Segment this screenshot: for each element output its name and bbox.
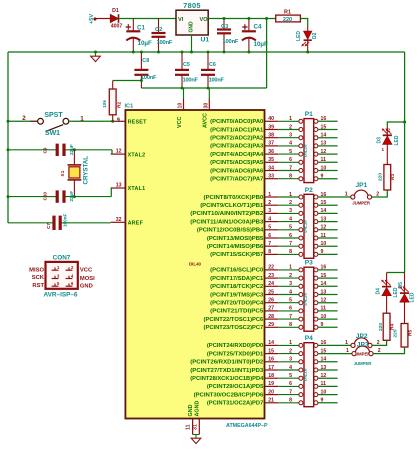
svg-text:1: 1 [289, 340, 292, 346]
svg-text:D1: D1 [112, 8, 119, 14]
svg-text:C1: C1 [137, 25, 145, 32]
svg-text:(PCINT15/SCK)PB7: (PCINT15/SCK)PB7 [210, 252, 263, 258]
svg-text:5: 5 [289, 298, 292, 304]
svg-text:(PCINT7/ADC7)PA7: (PCINT7/ADC7)PA7 [210, 177, 263, 183]
svg-text:CON7: CON7 [53, 255, 71, 262]
svg-text:8: 8 [289, 174, 292, 180]
svg-text:4: 4 [289, 141, 292, 147]
svg-text:XTAL1: XTAL1 [128, 186, 146, 192]
svg-text:R2: R2 [116, 102, 122, 108]
svg-text:8: 8 [289, 322, 292, 328]
svg-text:31: 31 [192, 424, 198, 430]
svg-text:(PCINT25/TXD0)PD1: (PCINT25/TXD0)PD1 [207, 351, 263, 357]
svg-text:8: 8 [268, 249, 271, 255]
svg-text:220: 220 [392, 329, 398, 337]
svg-text:D5: D5 [398, 282, 404, 289]
svg-text:5: 5 [289, 225, 292, 231]
svg-text:R4: R4 [390, 324, 396, 330]
svg-text:8: 8 [289, 398, 292, 404]
svg-text:100nF: 100nF [141, 75, 157, 81]
svg-text:RESET: RESET [128, 120, 147, 126]
svg-text:X1: X1 [60, 170, 66, 176]
svg-text:(PCINT31/OC2A)PD7: (PCINT31/OC2A)PD7 [207, 401, 263, 407]
svg-text:22pF: 22pF [69, 191, 74, 202]
svg-text:ATMEGA644P–P: ATMEGA644P–P [226, 423, 268, 429]
svg-text:100nF: 100nF [63, 214, 68, 227]
svg-text:4: 4 [289, 216, 292, 222]
svg-text:100nF: 100nF [157, 40, 173, 46]
svg-text:RST: RST [32, 283, 44, 289]
svg-text:29: 29 [268, 322, 274, 328]
svg-text:1: 1 [382, 147, 385, 152]
svg-text:28: 28 [268, 314, 274, 320]
svg-text:(PCINT20/TDO)PC4: (PCINT20/TDO)PC4 [210, 301, 263, 307]
svg-text:4: 4 [289, 289, 292, 295]
svg-text:JUMPER: JUMPER [352, 201, 371, 206]
svg-text:15: 15 [268, 348, 274, 354]
svg-text:12: 12 [116, 149, 122, 155]
svg-text:2: 2 [388, 128, 391, 133]
svg-text:7: 7 [289, 165, 292, 171]
svg-text:23: 23 [268, 273, 274, 279]
svg-text:SPST: SPST [44, 112, 63, 119]
svg-text:(PCINT21/TDI)PC5: (PCINT21/TDI)PC5 [210, 309, 263, 315]
svg-text:25: 25 [268, 289, 274, 295]
svg-text:(PCINT30/OC2B/ICP)PD6: (PCINT30/OC2B/ICP)PD6 [194, 392, 264, 398]
svg-text:SCK: SCK [32, 275, 45, 281]
svg-text:P3: P3 [305, 260, 313, 267]
svg-text:(PCINT28/XCK1/OC1B)PD4: (PCINT28/XCK1/OC1B)PD4 [190, 376, 263, 382]
svg-text:(PCINT18/TCK)PC2: (PCINT18/TCK)PC2 [210, 284, 263, 290]
svg-text:7805: 7805 [183, 1, 201, 10]
svg-text:C7: C7 [46, 223, 51, 229]
svg-text:6: 6 [289, 306, 292, 312]
svg-text:22: 22 [268, 265, 274, 271]
svg-text:AVR–ISP–6: AVR–ISP–6 [44, 292, 78, 299]
svg-text:11: 11 [186, 424, 192, 430]
svg-text:D2: D2 [312, 32, 318, 39]
svg-text:220: 220 [283, 17, 292, 23]
svg-text:VCC: VCC [177, 117, 183, 128]
svg-text:C10: C10 [43, 192, 48, 201]
svg-text:4007: 4007 [111, 24, 123, 30]
svg-text:9: 9 [117, 118, 120, 124]
svg-text:(PCINT14/MISO)PB6: (PCINT14/MISO)PB6 [207, 244, 263, 250]
svg-text:1: 1 [346, 348, 349, 354]
svg-text:SW1: SW1 [45, 130, 60, 137]
svg-text:10µF: 10µF [138, 40, 152, 47]
svg-text:GND: GND [188, 404, 194, 416]
svg-text:P1: P1 [305, 111, 313, 118]
svg-text:(PCINT5/ADC5)PA5: (PCINT5/ADC5)PA5 [210, 160, 263, 166]
svg-text:19: 19 [268, 381, 274, 387]
svg-text:VO: VO [200, 17, 209, 23]
svg-text:(PCINT12/OC0B/SS)PB4: (PCINT12/OC0B/SS)PB4 [197, 228, 263, 234]
svg-text:(PCINT4/ADC4)PA4: (PCINT4/ADC4)PA4 [210, 152, 263, 158]
svg-text:JP3: JP3 [357, 341, 369, 348]
svg-text:(PCINT23/TOSC2)PC7: (PCINT23/TOSC2)PC7 [204, 325, 264, 331]
svg-text:100nF: 100nF [183, 78, 199, 84]
svg-text:30: 30 [203, 103, 209, 109]
svg-text:1: 1 [345, 340, 348, 346]
svg-text:1: 1 [289, 265, 292, 271]
svg-text:C3: C3 [221, 24, 229, 30]
svg-text:IC1: IC1 [125, 104, 134, 110]
svg-text:(PCINT0/ADC0)PA0: (PCINT0/ADC0)PA0 [210, 119, 263, 125]
svg-text:DIL40: DIL40 [189, 261, 202, 266]
svg-text:3: 3 [289, 208, 292, 214]
svg-text:6: 6 [289, 233, 292, 239]
svg-text:GND: GND [189, 21, 195, 33]
svg-text:39: 39 [268, 124, 274, 130]
svg-text:(PCINT17/SDA)PC1: (PCINT17/SDA)PC1 [210, 276, 263, 282]
svg-text:AVCC: AVCC [203, 113, 209, 128]
svg-text:LED: LED [394, 135, 400, 145]
svg-text:27: 27 [268, 306, 274, 312]
svg-text:(PCINT19/TMS)PC3: (PCINT19/TMS)PC3 [210, 292, 263, 298]
svg-text:220: 220 [378, 323, 384, 331]
svg-text:6: 6 [289, 157, 292, 163]
svg-text:18: 18 [268, 373, 274, 379]
svg-text:LED: LED [296, 31, 302, 41]
svg-text:(PCINT1/ADC1)PA1: (PCINT1/ADC1)PA1 [210, 127, 263, 133]
svg-text:13: 13 [116, 183, 122, 189]
svg-text:(PCINT10/AIN0/INT2)PB2: (PCINT10/AIN0/INT2)PB2 [190, 211, 263, 217]
svg-text:GND: GND [80, 284, 93, 290]
svg-text:(PCINT3/ADC3)PA3: (PCINT3/ADC3)PA3 [210, 144, 263, 150]
svg-text:AGND: AGND [195, 401, 201, 417]
svg-text:5: 5 [289, 149, 292, 155]
svg-text:14: 14 [268, 340, 274, 346]
svg-text:4: 4 [289, 365, 292, 371]
svg-text:C8: C8 [142, 58, 149, 64]
svg-text:R1: R1 [284, 10, 291, 16]
svg-text:VCC: VCC [80, 268, 93, 274]
svg-text:R5: R5 [408, 330, 414, 336]
svg-text:JUMPER: JUMPER [354, 361, 373, 366]
svg-text:3: 3 [289, 133, 292, 139]
svg-text:(PCINT8/T0/XCK)PB0: (PCINT8/T0/XCK)PB0 [204, 195, 264, 201]
svg-text:JP1: JP1 [356, 182, 368, 189]
svg-text:35: 35 [268, 157, 274, 163]
svg-text:4: 4 [268, 216, 271, 222]
svg-text:6: 6 [289, 381, 292, 387]
svg-text:10k: 10k [102, 100, 108, 108]
svg-text:(PCINT27/TXD1/INT1)PD3: (PCINT27/TXD1/INT1)PD3 [190, 368, 263, 374]
svg-text:17: 17 [268, 365, 274, 371]
svg-text:220: 220 [378, 173, 384, 181]
svg-text:LED: LED [410, 292, 416, 302]
svg-text:(PCINT6/ADC6)PA6: (PCINT6/ADC6)PA6 [210, 168, 263, 174]
svg-text:C9: C9 [43, 147, 48, 153]
svg-text:21: 21 [268, 398, 274, 404]
svg-text:(PCINT11/AIN1/OC0A)PB3: (PCINT11/AIN1/OC0A)PB3 [190, 219, 263, 225]
svg-text:(PCINT22/TOSC1)PC6: (PCINT22/TOSC1)PC6 [204, 317, 264, 323]
svg-text:MISO: MISO [29, 268, 44, 274]
svg-text:R3: R3 [390, 174, 396, 180]
svg-text:3: 3 [289, 281, 292, 287]
svg-text:37: 37 [268, 141, 274, 147]
svg-text:16: 16 [268, 357, 274, 363]
svg-text:1: 1 [268, 192, 271, 198]
svg-text:36: 36 [268, 149, 274, 155]
svg-text:(PCINT29/OC1A)PD5: (PCINT29/OC1A)PD5 [207, 384, 263, 390]
svg-text:20: 20 [268, 389, 274, 395]
svg-text:3: 3 [268, 208, 271, 214]
svg-text:100nF: 100nF [209, 78, 225, 84]
svg-text:D3: D3 [376, 137, 382, 144]
svg-text:1: 1 [289, 192, 292, 198]
svg-text:XTAL2: XTAL2 [128, 152, 146, 158]
svg-text:CRYSTAL: CRYSTAL [83, 156, 90, 185]
svg-text:3: 3 [289, 357, 292, 363]
svg-text:7: 7 [289, 389, 292, 395]
svg-text:D4: D4 [375, 288, 381, 295]
svg-text:AREF: AREF [128, 221, 144, 227]
svg-text:10: 10 [178, 103, 184, 109]
svg-text:P4: P4 [305, 335, 313, 342]
svg-text:1: 1 [345, 191, 348, 197]
svg-text:JP2: JP2 [356, 333, 368, 340]
svg-text:10µF: 10µF [254, 41, 268, 48]
svg-text:2: 2 [268, 200, 271, 206]
svg-text:24: 24 [268, 281, 274, 287]
svg-text:32: 32 [116, 217, 122, 223]
svg-text:VI: VI [178, 17, 184, 23]
svg-text:6: 6 [268, 233, 271, 239]
svg-text:7: 7 [289, 314, 292, 320]
svg-text:C5: C5 [183, 62, 190, 68]
svg-text:33: 33 [268, 174, 274, 180]
svg-text:38: 38 [268, 133, 274, 139]
svg-text:100nF: 100nF [223, 39, 239, 45]
svg-text:26: 26 [268, 298, 274, 304]
svg-text:C4: C4 [254, 24, 262, 31]
svg-text:8: 8 [289, 249, 292, 255]
svg-text:34: 34 [268, 165, 274, 171]
svg-text:U1: U1 [201, 37, 210, 44]
svg-text:40: 40 [268, 116, 274, 122]
svg-text:(PCINT24/RXD0)PD0: (PCINT24/RXD0)PD0 [207, 343, 263, 349]
svg-text:5: 5 [268, 225, 271, 231]
svg-text:1: 1 [289, 116, 292, 122]
svg-text:MOSI: MOSI [80, 276, 95, 282]
svg-text:7: 7 [289, 241, 292, 247]
svg-text:(PCINT2/ADC2)PA2: (PCINT2/ADC2)PA2 [210, 136, 263, 142]
svg-text:P2: P2 [305, 187, 313, 194]
svg-text:2: 2 [289, 124, 292, 130]
svg-text:C2: C2 [155, 27, 162, 33]
svg-text:(PCINT16/SCL)PC0: (PCINT16/SCL)PC0 [210, 268, 263, 274]
svg-text:2: 2 [289, 348, 292, 354]
svg-text:(PCINT26/RXD1/INT0)PD2: (PCINT26/RXD1/INT0)PD2 [190, 360, 263, 366]
svg-text:(PCINT9/CLKO/T1)PB1: (PCINT9/CLKO/T1)PB1 [200, 203, 263, 209]
svg-text:(PCINT13/MOSI)PB5: (PCINT13/MOSI)PB5 [207, 236, 263, 242]
svg-text:5: 5 [289, 373, 292, 379]
svg-text:2: 2 [289, 200, 292, 206]
svg-text:7: 7 [268, 241, 271, 247]
svg-text:2: 2 [22, 115, 26, 122]
svg-text:2: 2 [289, 273, 292, 279]
svg-text:C6: C6 [209, 62, 216, 68]
